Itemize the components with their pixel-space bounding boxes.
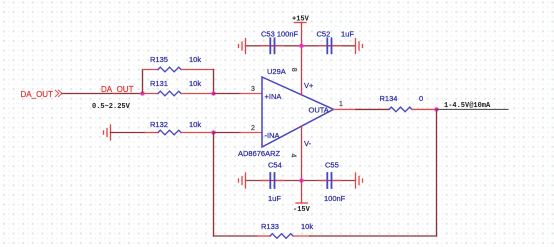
wire port to node A bbox=[62, 93, 143, 95]
feedback bottom wire right segment bbox=[310, 235, 437, 237]
svg-text:1-4.5V@10mA: 1-4.5V@10mA bbox=[444, 102, 491, 110]
wire node C down to feedback bbox=[213, 133, 215, 237]
svg-text:C55: C55 bbox=[325, 161, 339, 170]
capacitor C52 bbox=[317, 30, 355, 54]
svg-text:V+: V+ bbox=[304, 81, 314, 90]
resistor R133 bbox=[257, 222, 313, 238]
feedback bottom wire left segment bbox=[214, 235, 258, 237]
svg-text:1uF: 1uF bbox=[341, 30, 354, 39]
wire R135 right down bbox=[213, 70, 215, 94]
svg-text:DA_OUT: DA_OUT bbox=[101, 85, 134, 94]
+15V power symbol bbox=[292, 16, 310, 47]
svg-text:+INA: +INA bbox=[265, 92, 282, 101]
node B junction bbox=[211, 91, 216, 96]
svg-text:DA_OUT: DA_OUT bbox=[21, 90, 54, 99]
wire op-amp output to R134 bbox=[334, 108, 357, 110]
wire node A up bbox=[142, 70, 144, 94]
wire ground to R132 bbox=[111, 132, 146, 134]
svg-text:0: 0 bbox=[419, 94, 423, 103]
ground for R132 bbox=[104, 125, 111, 140]
resistor R132 bbox=[145, 120, 214, 135]
node bottom junction bbox=[299, 178, 304, 183]
node C junction bbox=[211, 130, 216, 135]
svg-text:2: 2 bbox=[251, 125, 255, 132]
op-amp V- pin wire bbox=[301, 126, 303, 181]
svg-text:V-: V- bbox=[304, 139, 312, 148]
svg-text:10k: 10k bbox=[189, 79, 201, 88]
svg-text:AD8676ARZ: AD8676ARZ bbox=[238, 149, 281, 158]
svg-text:R133: R133 bbox=[261, 222, 279, 231]
svg-text:-INA: -INA bbox=[265, 131, 280, 140]
op-amp V+ pin wire bbox=[301, 46, 303, 95]
svg-text:3: 3 bbox=[251, 86, 255, 93]
svg-text:R135: R135 bbox=[150, 55, 168, 64]
svg-text:1: 1 bbox=[339, 101, 343, 108]
capacitor C55 bbox=[324, 161, 346, 204]
node A junction bbox=[140, 91, 145, 96]
resistor R135 bbox=[143, 55, 214, 72]
top rail wire bbox=[246, 45, 356, 47]
node D junction bbox=[434, 107, 439, 112]
svg-text:R131: R131 bbox=[150, 79, 168, 88]
bottom rail wire bbox=[246, 180, 356, 182]
svg-text:10k: 10k bbox=[189, 55, 201, 64]
capacitor C54 bbox=[268, 161, 282, 204]
wire node C to pin 2 bbox=[214, 132, 241, 134]
svg-text:1uF: 1uF bbox=[268, 194, 281, 203]
ground right of C55 bbox=[356, 173, 363, 188]
capacitor C53 bbox=[261, 30, 299, 54]
svg-text:R134: R134 bbox=[380, 94, 398, 103]
svg-text:10k: 10k bbox=[189, 120, 201, 129]
resistor R131 bbox=[143, 79, 214, 96]
ground right of C52 bbox=[356, 39, 363, 54]
svg-text:C53 100nF: C53 100nF bbox=[261, 30, 299, 39]
output wire right bbox=[437, 108, 509, 110]
svg-text:100nF: 100nF bbox=[324, 194, 346, 203]
svg-text:10k: 10k bbox=[301, 222, 313, 231]
svg-text:OUTA: OUTA bbox=[309, 106, 329, 115]
svg-text:-15V: -15V bbox=[293, 206, 311, 214]
svg-text:C52: C52 bbox=[317, 30, 331, 39]
-15V power symbol bbox=[293, 181, 311, 215]
svg-text:0.5~2.25V: 0.5~2.25V bbox=[92, 103, 131, 111]
svg-text:C54: C54 bbox=[268, 161, 282, 170]
svg-text:4: 4 bbox=[290, 154, 297, 158]
resistor R134 bbox=[380, 94, 437, 112]
node top junction bbox=[299, 43, 304, 48]
wire node B to pin 3 bbox=[214, 93, 241, 95]
svg-text:U29A: U29A bbox=[267, 67, 286, 76]
ground left of C54 bbox=[239, 173, 246, 188]
op-amp U29A bbox=[238, 67, 334, 158]
ground left of C53 bbox=[239, 39, 246, 54]
svg-text:8: 8 bbox=[290, 68, 297, 72]
svg-text:R132: R132 bbox=[150, 120, 168, 129]
feedback wire right vertical bbox=[436, 109, 438, 236]
